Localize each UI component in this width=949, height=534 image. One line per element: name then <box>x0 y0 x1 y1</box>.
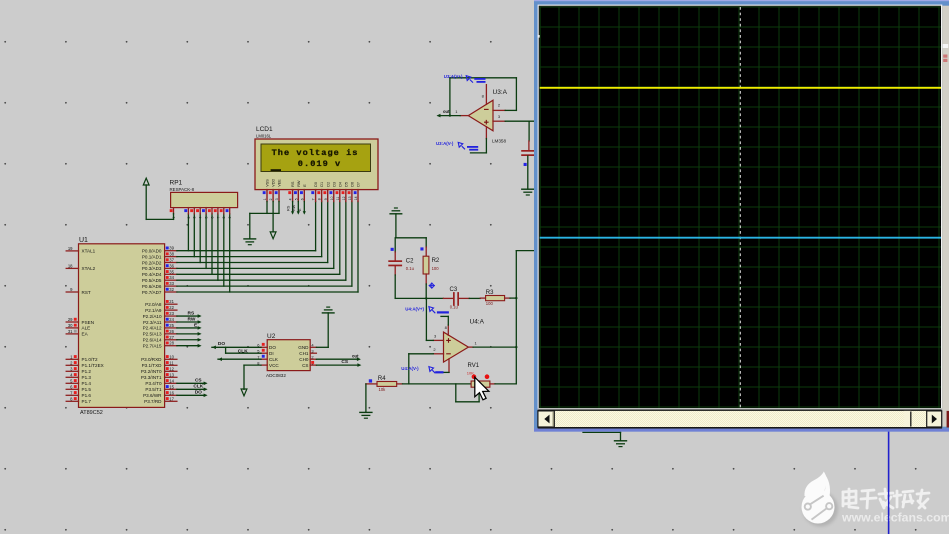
U1 pin 30 (ALE) <box>66 327 78 329</box>
svg-text:24: 24 <box>169 317 174 322</box>
power terminal (VCC arrow) <box>143 178 149 185</box>
U1 pin 34 (P0.5/AD5) <box>165 279 177 281</box>
wire LCD VDD to ground terminal <box>272 202 274 232</box>
svg-text:4: 4 <box>289 198 293 200</box>
ADC U2 ADC0832 body <box>267 340 310 371</box>
U1 pin 37 (P0.2/AD2) <box>165 262 177 264</box>
svg-text:34: 34 <box>169 275 174 280</box>
svg-text:31: 31 <box>68 329 73 334</box>
blue probe wire overlay <box>888 432 890 534</box>
svg-text:CS: CS <box>341 359 348 365</box>
svg-text:E: E <box>303 184 307 187</box>
U1 pin 16 (P3.6/WR) <box>165 394 177 396</box>
watermark chinese text <box>843 489 929 508</box>
U4 pin 4 V- power <box>448 359 450 373</box>
wire P0.5 to LCD D5 <box>177 279 346 281</box>
svg-text:P3.1/TXD: P3.1/TXD <box>142 363 163 368</box>
wire RP1 pin 8 to P0.6 bus <box>223 214 225 286</box>
wire junction DO to U2.DI <box>225 347 227 353</box>
U1 pin 3 (P1.2) <box>66 370 78 372</box>
wire P0.7 to LCD D7 <box>177 291 358 293</box>
svg-text:U4:A: U4:A <box>470 319 485 326</box>
svg-text:CH1: CH1 <box>299 351 309 356</box>
U1 pin 17 (P3.7/RD) <box>165 400 177 402</box>
wire P3.4 net CS <box>177 382 206 384</box>
U2 pin 4 (GND) <box>310 346 316 348</box>
svg-text:D1: D1 <box>320 182 324 187</box>
svg-text:23: 23 <box>169 311 174 316</box>
svg-text:VEE: VEE <box>278 179 282 187</box>
svg-text:CLK: CLK <box>238 348 248 354</box>
U2 pin 3 (CH1) <box>310 352 316 354</box>
svg-text:D0: D0 <box>314 182 318 187</box>
svg-text:14: 14 <box>169 378 174 383</box>
scope right panel strip <box>941 5 942 428</box>
svg-text:8: 8 <box>318 198 322 200</box>
U3 pin 2 (-) input <box>493 109 505 111</box>
svg-text:P1.3: P1.3 <box>82 375 92 380</box>
svg-text:P2.5/A13: P2.5/A13 <box>143 332 162 337</box>
svg-text:DI: DI <box>269 351 274 356</box>
svg-text:CLK: CLK <box>193 384 203 390</box>
wire P0.2 to LCD D2 <box>177 262 328 264</box>
U3 pin 1 output <box>460 115 468 117</box>
svg-text:P0.7/AD7: P0.7/AD7 <box>142 290 162 295</box>
wire U2.GND up to ground <box>316 346 328 348</box>
wire RP1 pin1 to power terminal <box>173 214 175 220</box>
svg-text:8: 8 <box>222 217 226 219</box>
svg-text:P3.4/T0: P3.4/T0 <box>145 381 162 386</box>
svg-text:5: 5 <box>205 217 209 219</box>
svg-text:P2.3/A11: P2.3/A11 <box>143 320 162 325</box>
svg-text:U3:A: U3:A <box>493 89 508 96</box>
svg-text:VDD: VDD <box>272 179 276 187</box>
RV1 right pin wire <box>490 383 495 385</box>
scrollbar right arrow button <box>927 411 942 427</box>
wire RP1 pin 5 to P0.3 bus <box>205 214 207 269</box>
U1 pin 13 (P3.3/INT1) <box>165 376 177 378</box>
U1 pin 8 (P1.7) <box>66 400 78 402</box>
U1 pin 19 (XTAL1) <box>66 250 78 252</box>
svg-text:CS: CS <box>195 378 202 384</box>
RP1 pin 9 <box>229 208 231 214</box>
svg-text:ALE: ALE <box>82 326 91 331</box>
svg-text:P2.0/A8: P2.0/A8 <box>145 302 162 307</box>
svg-text:The voltage is: The voltage is <box>272 148 359 158</box>
svg-text:11: 11 <box>336 197 340 201</box>
svg-text:10k: 10k <box>379 387 387 392</box>
R4 right pin wire <box>397 383 403 385</box>
scope trace channel B (cyan) <box>540 237 941 239</box>
svg-text:P1.6: P1.6 <box>82 393 92 398</box>
svg-text:10: 10 <box>169 354 174 359</box>
svg-text:U4:A(V+): U4:A(V+) <box>405 306 424 311</box>
svg-text:P3.7/RD: P3.7/RD <box>144 399 162 404</box>
ground (R4) <box>360 411 372 413</box>
svg-text:D4: D4 <box>338 182 342 187</box>
svg-text:18: 18 <box>68 263 73 268</box>
wire P2.2 net RS <box>177 315 200 317</box>
RP1 pin 8 <box>223 208 225 214</box>
svg-text:U4:A(V-): U4:A(V-) <box>401 366 419 371</box>
wire P2.7 net <box>177 345 200 347</box>
wire P2.3 net RW <box>177 321 200 323</box>
U1 pin 18 (XTAL2) <box>66 267 78 269</box>
svg-text:33: 33 <box>169 281 174 286</box>
wire RP1 pin 4 to P0.2 bus <box>199 214 201 263</box>
svg-text:LM016L: LM016L <box>256 134 272 139</box>
U1 pin 25 (P2.4/A12) <box>165 327 177 329</box>
svg-text:DO: DO <box>218 341 225 347</box>
U1 pin 32 (P0.7/AD7) <box>165 291 177 293</box>
svg-text:0.1u: 0.1u <box>406 266 415 271</box>
resistor pack RP1 RESPACK-8 body <box>171 192 238 207</box>
U3 pin 3 (+) input <box>493 120 505 122</box>
capacitor C2 <box>394 238 396 252</box>
svg-text:P1.0/T2: P1.0/T2 <box>82 357 99 362</box>
U4 pin 8 V+ power <box>447 325 449 335</box>
svg-text:P0.3/AD3: P0.3/AD3 <box>142 266 162 271</box>
svg-text:P0.1/AD1: P0.1/AD1 <box>142 254 162 259</box>
window edge fragment <box>947 411 949 428</box>
wire P3.5 net CLK <box>177 388 206 390</box>
svg-text:P1.2: P1.2 <box>82 369 92 374</box>
svg-text:LM358: LM358 <box>492 139 506 144</box>
op-amp U3:A body <box>468 100 493 131</box>
RP1 pin 6 <box>211 208 213 214</box>
wire P0.4 to LCD D4 <box>177 273 340 275</box>
capacitor C4 (U3 input) <box>528 121 530 141</box>
wire P0.1 to LCD D1 <box>177 256 322 258</box>
svg-text:R3: R3 <box>486 290 494 296</box>
U1 pin 6 (P1.5) <box>66 388 78 390</box>
wire U4 pin2 to R4/RV1 node <box>409 353 434 355</box>
svg-text:4: 4 <box>199 217 203 219</box>
svg-text:P3.3/INT1: P3.3/INT1 <box>141 375 162 380</box>
svg-text:CLK: CLK <box>269 357 279 362</box>
svg-text:P3.5/T1: P3.5/T1 <box>145 387 162 392</box>
svg-text:19: 19 <box>68 246 73 251</box>
RP1 pin 5 <box>205 208 207 214</box>
RP1 pin 2 <box>187 208 189 214</box>
U4 pin 1 output <box>468 346 473 348</box>
U1 pin 11 (P3.1/TXD) <box>165 364 177 366</box>
wire RP1 pin 7 to P0.5 bus <box>217 214 219 280</box>
wire RV1 left to wiper loop <box>455 384 457 402</box>
wire U3 feedback loop <box>505 109 516 111</box>
svg-text:RESPACK-8: RESPACK-8 <box>170 187 195 192</box>
svg-text:12: 12 <box>169 366 174 371</box>
wire net CLK to U2.CLK <box>218 358 261 360</box>
wire RP1 pin 3 to P0.1 bus <box>193 214 195 257</box>
U1 pin 39 (P0.0/AD0) <box>165 250 177 252</box>
svg-text:P2.2/A10: P2.2/A10 <box>143 314 162 319</box>
svg-text:27: 27 <box>169 335 174 340</box>
svg-text:39: 39 <box>169 246 174 251</box>
svg-text:R2: R2 <box>432 258 440 264</box>
svg-text:C2: C2 <box>406 259 414 265</box>
scope horizontal scrollbar <box>538 408 942 429</box>
wire U4 output to feedback/scope node <box>473 346 516 348</box>
svg-text:P0.5/AD5: P0.5/AD5 <box>142 278 162 283</box>
wire to ground below scope window <box>583 431 621 433</box>
svg-text:D2: D2 <box>326 182 330 187</box>
LCD cursor <box>271 169 281 171</box>
U1 pin 24 (P2.3/A11) <box>165 321 177 323</box>
svg-text:RW: RW <box>297 180 301 187</box>
svg-text:P2.4/A12: P2.4/A12 <box>143 326 162 331</box>
U3 pin 4 V- power <box>485 127 487 139</box>
scope window bottom border <box>534 429 949 432</box>
U2 pin 2 (CH0) <box>310 358 316 360</box>
svg-text:13: 13 <box>348 196 352 200</box>
svg-text:28: 28 <box>169 341 174 346</box>
svg-text:U3:A(V-): U3:A(V-) <box>436 141 454 146</box>
svg-text:RS: RS <box>188 310 195 316</box>
svg-text:RW: RW <box>292 204 296 211</box>
wire U3 pin3 to signal input <box>505 120 535 122</box>
mouse cursor <box>475 377 489 400</box>
svg-text:2: 2 <box>269 198 273 200</box>
svg-text:PSEN: PSEN <box>82 320 95 325</box>
wire RP1 pin 6 to P0.4 bus <box>211 214 213 274</box>
op-amp U4:A body <box>444 332 469 362</box>
ground (flipped, C2/R2 top net) <box>390 213 402 215</box>
svg-text:EA: EA <box>82 332 89 337</box>
U2 pin 8 (VCC) <box>261 364 267 366</box>
wire P3.6 net DO <box>177 394 206 396</box>
svg-text:3: 3 <box>193 217 197 219</box>
svg-text:30: 30 <box>68 323 73 328</box>
svg-text:RW: RW <box>188 316 196 322</box>
U1 pin 10 (P3.0/RXD) <box>165 358 177 360</box>
svg-text:RS: RS <box>291 181 295 187</box>
svg-text:XTAL2: XTAL2 <box>82 266 96 271</box>
resistor R2 <box>425 238 427 247</box>
svg-text:XTAL1: XTAL1 <box>82 249 96 254</box>
svg-text:DO: DO <box>195 390 202 396</box>
U1 pin 15 (P3.5/T1) <box>165 388 177 390</box>
wire U2.CH0 net out <box>316 358 359 360</box>
wire U2.CS net CS <box>316 364 359 366</box>
RP1 pin 4 <box>199 208 201 214</box>
svg-text:U2: U2 <box>267 333 276 340</box>
svg-text:D6: D6 <box>351 182 355 187</box>
svg-text:E: E <box>298 208 302 211</box>
U1 pin 31 (EA) <box>66 333 78 335</box>
U1 pin 9 (RST) <box>66 291 78 293</box>
svg-text:www.elecfans.com: www.elecfans.com <box>841 511 949 525</box>
scope left edge marker <box>538 35 540 38</box>
capacitor C3 <box>443 297 453 299</box>
svg-text:P1.7: P1.7 <box>82 399 92 404</box>
svg-text:11: 11 <box>169 360 174 365</box>
svg-text:100: 100 <box>432 266 440 271</box>
U1 pin 21 (P2.0/A8) <box>165 303 177 305</box>
U1 pin 26 (P2.5/A13) <box>165 333 177 335</box>
svg-text:CH0: CH0 <box>299 357 309 362</box>
svg-text:P0.2/AD2: P0.2/AD2 <box>142 260 162 265</box>
svg-text:RV1: RV1 <box>468 363 480 369</box>
svg-text:9: 9 <box>324 198 328 200</box>
svg-text:D7: D7 <box>357 182 361 187</box>
svg-text:P3.0/RXD: P3.0/RXD <box>141 357 162 362</box>
U3 pin 8 V+ power <box>485 85 487 105</box>
svg-text:7: 7 <box>216 217 220 219</box>
svg-text:U1: U1 <box>79 237 88 244</box>
svg-text:D3: D3 <box>332 182 336 187</box>
svg-text:P2.7/A15: P2.7/A15 <box>143 344 162 349</box>
svg-text:P3.6/WR: P3.6/WR <box>143 393 162 398</box>
blue probe wire <box>888 432 890 534</box>
wire P0.3 to LCD D3 <box>177 267 334 269</box>
svg-text:1: 1 <box>263 198 267 200</box>
U1 pin 38 (P0.1/AD1) <box>165 256 177 258</box>
svg-text:38: 38 <box>169 252 174 257</box>
LCD1 screen <box>261 144 371 172</box>
ground (U2 GND) <box>322 312 334 314</box>
U4 pin 3 (+) input <box>433 339 443 341</box>
svg-text:R4: R4 <box>378 376 386 382</box>
ground terminal (LCD VDD) <box>270 232 276 239</box>
svg-text:out: out <box>352 353 359 358</box>
wire RP1 pin 9 to P0.7 bus <box>229 214 231 292</box>
svg-text:25: 25 <box>169 323 174 328</box>
RP1 pin 7 <box>217 208 219 214</box>
resistor R3 <box>480 297 485 299</box>
wire LCD RW terminal <box>297 202 299 213</box>
wire U2.VCC to ground terminal <box>244 364 261 366</box>
svg-text:3: 3 <box>275 198 279 200</box>
U1 pin 29 (PSEN) <box>66 321 78 323</box>
svg-text:VSS: VSS <box>266 179 270 187</box>
svg-text:P2.6/A14: P2.6/A14 <box>143 338 162 343</box>
probe marker (R2 bottom) <box>429 282 435 288</box>
U1 pin 23 (P2.2/A10) <box>165 315 177 317</box>
U1 pin 1 (P1.0/T2) <box>66 358 78 360</box>
svg-text:U3:A(V+): U3:A(V+) <box>444 74 463 79</box>
svg-text:35: 35 <box>169 269 174 274</box>
wire LCD VSS/VEE to ground <box>266 202 268 214</box>
wire P2.6 net <box>177 339 200 341</box>
scope trace channel A (yellow) <box>540 87 941 89</box>
svg-text:6: 6 <box>300 198 304 200</box>
svg-text:29: 29 <box>68 317 73 322</box>
U1 pin 27 (P2.6/A14) <box>165 339 177 341</box>
watermark logo flame circle <box>802 472 839 527</box>
wire P2.4 net E <box>177 327 200 329</box>
svg-text:36: 36 <box>169 263 174 268</box>
svg-text:RP1: RP1 <box>170 180 183 187</box>
svg-text:7: 7 <box>312 198 316 200</box>
U1 pin 4 (P1.3) <box>66 376 78 378</box>
svg-text:32: 32 <box>169 287 174 292</box>
scrollbar thumb <box>904 411 911 427</box>
ground (LCD VSS) <box>244 238 256 240</box>
U1 pin 35 (P0.4/AD4) <box>165 273 177 275</box>
svg-text:P1.4: P1.4 <box>82 381 92 386</box>
svg-text:13: 13 <box>169 372 174 377</box>
svg-text:CS: CS <box>302 363 308 368</box>
svg-text:P2.1/A9: P2.1/A9 <box>145 308 162 313</box>
U1 pin 14 (P3.4/T0) <box>165 382 177 384</box>
wire LCD RS terminal <box>292 202 294 213</box>
scrollbar left arrow button <box>538 411 554 427</box>
svg-text:ADC0832: ADC0832 <box>266 373 286 378</box>
svg-text:P3.2/INT0: P3.2/INT0 <box>141 369 162 374</box>
svg-text:37: 37 <box>169 258 174 263</box>
svg-text:22: 22 <box>169 305 174 310</box>
svg-text:RST: RST <box>82 290 91 295</box>
svg-text:P1.1/T2EX: P1.1/T2EX <box>82 363 104 368</box>
LCD module LCD1 LM016L body <box>255 139 378 190</box>
svg-text:LCD1: LCD1 <box>256 126 273 133</box>
wire filter bottom net <box>395 297 443 299</box>
svg-text:out: out <box>443 109 450 114</box>
svg-text:0.1u: 0.1u <box>450 304 459 309</box>
wire C2/R2 top net <box>396 237 426 239</box>
U1 pin 7 (P1.6) <box>66 394 78 396</box>
svg-text:17: 17 <box>169 396 174 401</box>
RP1 pin 3 <box>193 208 195 214</box>
svg-text:15: 15 <box>169 384 174 389</box>
wire net DO to U2.DO <box>212 346 261 348</box>
svg-text:5: 5 <box>294 198 298 200</box>
U1 pin 33 (P0.6/AD6) <box>165 285 177 287</box>
scope center dashed line <box>739 7 741 408</box>
oscilloscope screen <box>540 7 941 408</box>
microcontroller U1 AT89C52 body <box>79 244 165 408</box>
svg-text:P0.6/AD6: P0.6/AD6 <box>142 284 162 289</box>
resistor R4 <box>377 382 397 387</box>
svg-text:12: 12 <box>342 196 346 200</box>
wire P0.0 to LCD D0 <box>177 250 316 252</box>
svg-text:DO: DO <box>269 345 276 350</box>
U1 pin 12 (P3.2/INT0) <box>165 370 177 372</box>
svg-text:9: 9 <box>228 217 232 219</box>
svg-text:C3: C3 <box>450 287 458 293</box>
svg-text:100: 100 <box>486 301 494 306</box>
U1 pin 5 (P1.4) <box>66 382 78 384</box>
svg-text:RS: RS <box>286 205 290 211</box>
svg-text:14: 14 <box>354 196 358 200</box>
svg-text:16: 16 <box>169 390 174 395</box>
svg-text:2: 2 <box>187 217 191 219</box>
wire U3 output net out <box>438 115 460 117</box>
U1 pin 22 (P2.1/A9) <box>165 309 177 311</box>
wire U4 pin3 to filter node <box>426 339 433 341</box>
U1 pin 2 (P1.1/T2EX) <box>66 364 78 366</box>
ground (below scope) <box>615 440 627 442</box>
svg-text:D5: D5 <box>344 182 348 187</box>
svg-text:P0.0/AD0: P0.0/AD0 <box>142 249 162 254</box>
svg-text:GND: GND <box>298 345 309 350</box>
U1 pin 28 (P2.7/A15) <box>165 345 177 347</box>
U2 pin 6 (DO) <box>261 346 267 348</box>
svg-text:AT89C52: AT89C52 <box>80 410 103 416</box>
wire P0.6 to LCD D6 <box>177 285 352 287</box>
RP1 pin 1 <box>173 208 175 214</box>
U2 pin 5 (DI) <box>261 352 267 354</box>
U2 pin 7 (CLK) <box>261 358 267 360</box>
svg-text:21: 21 <box>169 299 174 304</box>
U2 pin 1 (CS) <box>310 364 316 366</box>
R4 left pin wire to ground <box>366 383 377 385</box>
wire node to oscilloscope input <box>515 251 517 384</box>
wire P2.5 net <box>177 333 200 335</box>
svg-text:26: 26 <box>169 329 174 334</box>
svg-text:P1.5: P1.5 <box>82 387 92 392</box>
